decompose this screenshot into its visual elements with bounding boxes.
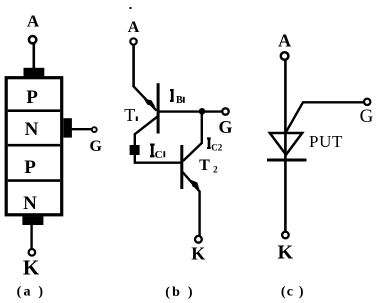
layer divider 1 (a)	[8, 109, 60, 112]
terminal A circle (b)	[130, 38, 136, 44]
wire anode vertical (b)	[132, 45, 135, 87]
svg-text:A: A	[27, 12, 40, 31]
wire to T2 base	[134, 161, 181, 163]
svg-text:A: A	[128, 19, 140, 36]
terminal K circle (b)	[195, 236, 202, 243]
svg-text:P: P	[26, 87, 38, 108]
svg-text:P: P	[24, 157, 36, 178]
terminal A circle (c)	[281, 52, 289, 60]
collector wire T1 down to node	[135, 117, 158, 163]
terminal K circle (c)	[282, 232, 289, 239]
svg-text:PUT: PUT	[309, 132, 343, 151]
layer divider 2 (a)	[8, 144, 60, 147]
wire gate (a)	[72, 128, 92, 130]
transistor T2 base bar	[180, 145, 183, 189]
terminal G circle (c)	[364, 99, 370, 105]
cathode bar PUT	[267, 159, 307, 162]
base wire T1 to junction and G	[160, 110, 223, 112]
current label IC2	[207, 137, 223, 152]
emitter wire T2	[183, 172, 200, 236]
current label IC1	[150, 144, 165, 162]
gate contact bar (a)	[63, 118, 72, 137]
cathode contact bar (a)	[22, 216, 43, 225]
svg-text:N: N	[25, 119, 39, 140]
terminal G circle (b)	[222, 108, 228, 114]
svg-text:(c ): (c )	[281, 284, 305, 299]
diode triangle PUT	[270, 133, 302, 155]
emitter arrow T1	[144, 98, 156, 106]
anode contact bar (a)	[24, 68, 45, 77]
svg-text:K: K	[23, 256, 40, 280]
svg-text:G: G	[360, 106, 374, 127]
emitter arrow T2	[191, 180, 200, 189]
svg-text:(b ): (b )	[165, 285, 194, 300]
svg-text:B: B	[176, 95, 183, 106]
svg-text:A: A	[278, 31, 291, 51]
svg-text:T: T	[124, 105, 135, 125]
terminal G circle (a)	[92, 127, 97, 132]
svg-text:C: C	[155, 149, 163, 161]
svg-text:G: G	[89, 138, 102, 155]
terminal K circle (a)	[29, 249, 36, 256]
wire anode (a)	[32, 44, 35, 69]
svg-text:N: N	[23, 193, 37, 214]
terminal A circle (a)	[29, 36, 36, 43]
collector wire T2 up to junction	[183, 113, 202, 161]
svg-text:2: 2	[213, 165, 218, 175]
svg-text:T: T	[199, 157, 210, 174]
svg-text:(a ): (a )	[17, 285, 46, 300]
wire cathode (a)	[30, 225, 32, 250]
svg-text:K: K	[191, 244, 205, 264]
svg-text:K: K	[278, 241, 294, 263]
speck	[130, 7, 132, 9]
current label IB1	[170, 89, 185, 106]
svg-text:C2: C2	[211, 142, 222, 152]
gate wire (c)	[286, 102, 364, 133]
PNPN stack body (a)	[6, 78, 62, 215]
connection square on T1 collector	[130, 145, 140, 155]
wire anode to cathode line (c)	[284, 60, 287, 232]
transistor T1 base bar	[157, 83, 160, 133]
svg-text:G: G	[218, 117, 232, 137]
emitter wire T1	[133, 86, 157, 111]
junction dot	[199, 108, 206, 115]
layer divider 3 (a)	[8, 179, 60, 182]
